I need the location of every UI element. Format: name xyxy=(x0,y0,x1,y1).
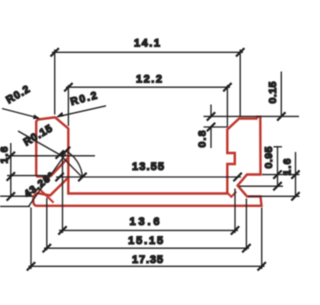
svg-text:14.1: 14.1 xyxy=(134,37,160,49)
right flange underside notch xyxy=(226,192,236,197)
svg-text:1.6: 1.6 xyxy=(0,146,11,163)
leader R0.2 outer corner xyxy=(2,83,40,119)
svg-text:15.15: 15.15 xyxy=(128,235,163,247)
dimension 12.2 xyxy=(64,73,231,127)
dimension 17.35 xyxy=(27,208,266,271)
dimension 14.1 xyxy=(51,37,245,116)
svg-text:12.2: 12.2 xyxy=(136,73,162,85)
dimension 1.6 left xyxy=(0,143,95,206)
leader R0.15 xyxy=(18,123,64,159)
svg-text:1.6: 1.6 xyxy=(282,158,294,175)
svg-text:0.95: 0.95 xyxy=(263,146,275,168)
svg-text:R0.2: R0.2 xyxy=(4,83,32,106)
svg-text:17.35: 17.35 xyxy=(132,254,163,266)
profile outline (red aluminium extrusion cross-section) xyxy=(33,117,261,206)
leader R0.2 inner corner xyxy=(56,90,106,118)
dimension 13.6 xyxy=(58,155,239,235)
45 degree screw slot upper wall xyxy=(50,157,68,176)
dimension 15.15 xyxy=(43,198,251,252)
dimension 1.6 right xyxy=(248,152,300,201)
dimension 0.15 xyxy=(267,72,286,121)
svg-text:R0.15: R0.15 xyxy=(22,123,55,149)
svg-text:0.8: 0.8 xyxy=(197,130,209,147)
svg-text:0.15: 0.15 xyxy=(267,81,279,103)
svg-text:13.6: 13.6 xyxy=(130,216,160,228)
svg-text:13.55: 13.55 xyxy=(132,161,164,173)
left flange underside slot xyxy=(34,188,54,202)
dimension 13.55 xyxy=(55,161,241,181)
left wall shelf xyxy=(36,175,50,178)
angle dimension 43.26 deg xyxy=(23,147,87,207)
svg-text:R0.2: R0.2 xyxy=(69,90,98,109)
dimension 0.8 xyxy=(197,105,300,149)
dimension 0.95 xyxy=(239,146,283,190)
